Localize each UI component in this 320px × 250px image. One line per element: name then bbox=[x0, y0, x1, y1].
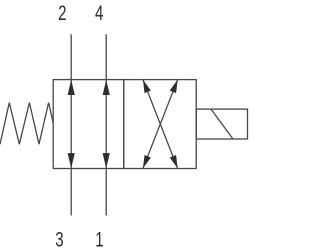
port 4 line (top stub) bbox=[105, 34, 107, 79]
port 2 line (top stub) bbox=[70, 34, 72, 79]
svg-text:2: 2 bbox=[58, 0, 66, 24]
flow path arrow 2->3 (left box, line at port 2) bbox=[70, 80, 72, 169]
svg-text:4: 4 bbox=[95, 0, 103, 24]
solenoid diagonal stroke bbox=[211, 109, 233, 139]
port 1 line (bottom stub) bbox=[105, 169, 107, 216]
valve body position box 2 (right, crossed flow) bbox=[124, 80, 196, 169]
crossed flow path arrow (right box, bottom-left to top-right) bbox=[143, 80, 178, 169]
return spring (left) bbox=[0, 103, 53, 145]
flow path arrow 4->1 (left box, line at port 4) bbox=[105, 80, 107, 169]
port 3 line (bottom stub) bbox=[70, 169, 72, 216]
crossed flow path arrow (right box, top-left to bottom-right) bbox=[143, 80, 178, 169]
svg-text:3: 3 bbox=[55, 227, 63, 250]
solenoid actuator box (right) bbox=[196, 109, 247, 139]
svg-text:1: 1 bbox=[95, 227, 103, 250]
valve body position box 1 (left, parallel flow) bbox=[53, 80, 124, 169]
